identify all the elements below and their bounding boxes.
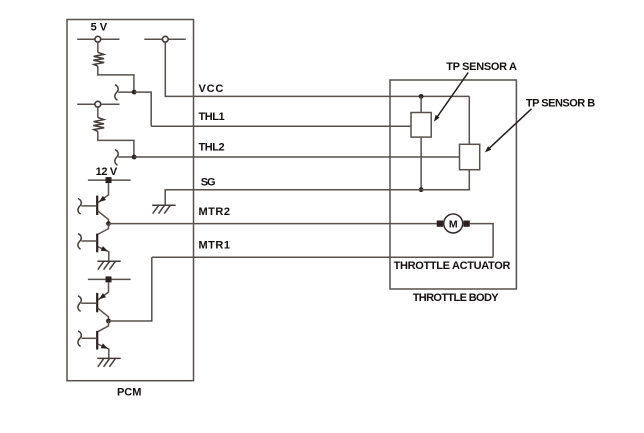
transistor Q2 emitter arrow (NPN, outward) (101, 246, 108, 251)
connector squiggle on Q4 base (78, 331, 81, 347)
5V terminal line 2 (144, 38, 186, 40)
transistor Q3 base wire (81, 302, 97, 304)
svg-text:TP SENSOR A: TP SENSOR A (446, 61, 517, 73)
arrow leader TP sensor B (488, 109, 532, 150)
node THL2 junction dot (132, 155, 137, 160)
node MTR1 junction dot (106, 319, 111, 324)
transistor Q3 collector (98, 308, 109, 321)
transistor Q4 base wire (81, 337, 97, 339)
wire THL1 (151, 125, 411, 127)
motor M right brush (463, 221, 469, 227)
ground for SG (152, 205, 175, 213)
connector squiggle on THL1 node stub (115, 85, 118, 101)
wire VCC right leg to TP sensor B top (468, 96, 470, 144)
arrow leader TP sensor A (436, 73, 468, 119)
transistor Q4 emitter arrow (NPN, outward) (101, 343, 108, 348)
node MTR2 junction dot (106, 221, 111, 226)
wire MTR1 junction to transistor Q4 collector (98, 321, 109, 332)
transistor Q1 base wire (81, 205, 97, 207)
transistor Q3 base bar (96, 293, 98, 312)
node THL1 junction dot (132, 90, 137, 95)
wire 12V to transistor Q1 emitter (98, 183, 109, 203)
wire MTR1 jog (109, 257, 152, 321)
wire stub squiggle to THL2 junction (118, 156, 134, 158)
wire 12V to transistor Q3 emitter (98, 282, 109, 300)
PCM box (67, 20, 194, 381)
motor M wire right side (470, 224, 493, 258)
arrowhead TP sensor B (485, 146, 491, 152)
connector squiggle on Q3 base (78, 296, 81, 312)
svg-text:PCM: PCM (117, 386, 141, 398)
resistor R1 (93, 52, 104, 66)
svg-text:THL2: THL2 (199, 142, 225, 154)
svg-text:VCC: VCC (199, 83, 224, 95)
transistor Q2 emitter wire (98, 247, 109, 261)
transistor Q1 base bar (96, 196, 98, 215)
motor M left brush (437, 221, 443, 227)
motor M circle (444, 214, 463, 233)
wire VCC from 5V circle 2 (165, 42, 469, 96)
wire stub squiggle to THL1 junction (118, 91, 134, 93)
wire THL2 (134, 156, 459, 158)
wire THL1 jog down (134, 92, 151, 126)
connector squiggle on Q2 base (78, 234, 81, 250)
svg-text:M: M (449, 218, 458, 230)
arrowhead TP sensor A (434, 115, 440, 122)
transistor Q2 base wire (81, 240, 97, 242)
5V terminal circle 1 (95, 36, 101, 42)
5V terminal circle 2 (162, 36, 168, 42)
12V rail 1 square node (106, 177, 112, 183)
TP sensor B box (460, 144, 480, 169)
12V rail 1 (88, 179, 131, 181)
wire SG (165, 190, 421, 205)
wire from R2 to THL2 node (98, 131, 134, 156)
transistor Q4 emitter wire (98, 344, 109, 358)
12V rail 2 (88, 278, 131, 280)
svg-text:MTR1: MTR1 (199, 240, 231, 252)
connector squiggle on Q1 base (78, 199, 81, 215)
svg-text:MTR2: MTR2 (199, 206, 231, 218)
connector squiggle on THL2 node stub (115, 150, 118, 166)
svg-text:5 V: 5 V (91, 22, 108, 34)
transistor Q1 emitter arrow (PNP, into base) (99, 196, 106, 202)
node VCC junction dot (419, 94, 424, 99)
wire TP sensor A bottom to SG junction (420, 137, 422, 190)
resistor R2 (93, 118, 104, 132)
5V terminal circle 3 (95, 101, 101, 107)
node SG junction dot (419, 187, 424, 192)
svg-text:THROTTLE ACTUATOR: THROTTLE ACTUATOR (394, 260, 511, 272)
wire MTR2 (109, 223, 437, 225)
svg-text:TP SENSOR B: TP SENSOR B (526, 98, 595, 110)
transistor Q3 emitter arrow (PNP, into base) (99, 293, 106, 299)
wire VCC junction to TP sensor A top (420, 96, 422, 112)
ground for Q4 emitter (97, 358, 120, 366)
wire from R1 to THL1 node (98, 66, 134, 91)
svg-text:THL1: THL1 (199, 111, 225, 123)
wire from 5V circle 3 to resistor R2 (97, 107, 99, 118)
wire MTR1 (152, 256, 493, 258)
svg-text:SG: SG (201, 177, 216, 189)
transistor Q4 base bar (96, 331, 98, 350)
12V rail 2 square node (106, 276, 112, 282)
transistor Q2 base bar (96, 234, 98, 253)
wire TP sensor B bottom to SG line (421, 170, 469, 190)
TP sensor A box (411, 113, 431, 138)
wire MTR2 junction to transistor Q2 collector (98, 224, 109, 235)
5V terminal line 3 (77, 103, 119, 105)
svg-text:THROTTLE BODY: THROTTLE BODY (413, 292, 500, 304)
svg-text:12 V: 12 V (96, 166, 118, 178)
5V terminal line 1 (77, 38, 119, 40)
ground for Q2 emitter (97, 261, 120, 269)
transistor Q1 collector (98, 211, 109, 224)
throttle body box (390, 80, 516, 289)
wire from 5V circle 1 to resistor R1 (97, 42, 99, 52)
